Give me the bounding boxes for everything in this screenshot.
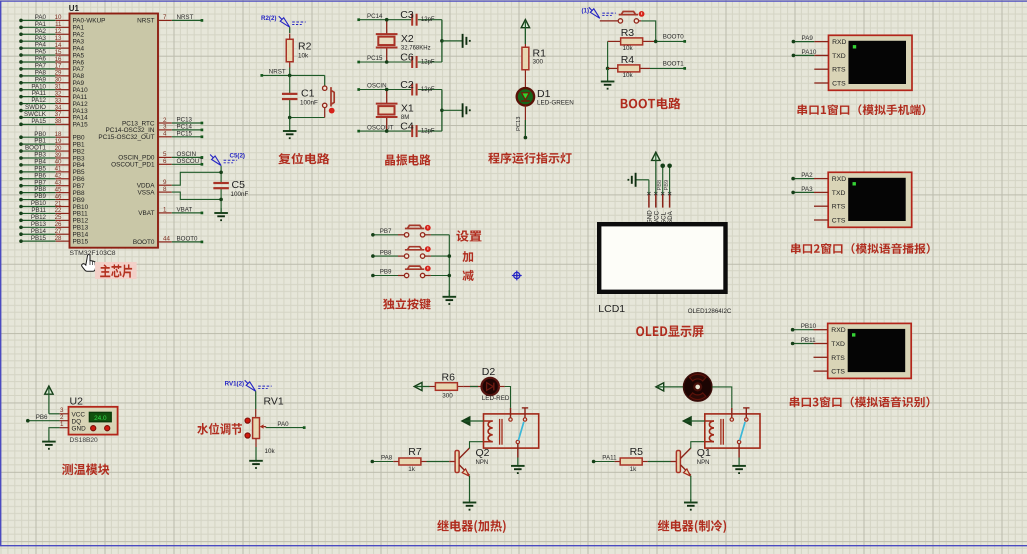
svg-text:BOOT0: BOOT0 [663,34,685,41]
svg-text:NRST: NRST [137,18,154,25]
pin VDDA (9) [137,172,221,189]
wire motor to relay [712,387,732,408]
svg-text:PA2: PA2 [801,172,813,179]
power arrow (relay coil) [462,417,484,425]
svg-text:10k: 10k [298,52,309,59]
svg-text:R3: R3 [621,27,635,39]
svg-text:RV1: RV1 [264,396,284,408]
svg-text:Q1: Q1 [697,447,711,459]
svg-text:PA10: PA10 [802,49,817,56]
ground (Q1 emitter) [684,499,698,511]
pin PB0 (18) [19,131,85,142]
svg-text:OLED12864I2C: OLED12864I2C [688,308,732,315]
svg-text:PA3: PA3 [801,186,813,193]
svg-text:STM32F103C8: STM32F103C8 [70,250,116,257]
crystal X1 group (C2,C4) [357,79,470,137]
label 程序运行指示灯 [488,152,571,164]
label 串口1窗口 [797,104,925,115]
button PB7 [371,225,449,237]
wire NRST [260,69,324,78]
resistor R6 [430,371,464,399]
svg-text:C6: C6 [400,51,414,63]
button PB9 [371,266,449,278]
svg-text:VBAT: VBAT [177,207,193,214]
svg-text:DS18B20: DS18B20 [70,437,99,444]
svg-text:RXD: RXD [832,39,846,46]
pin PB15 (28) [19,235,88,246]
svg-text:PB15: PB15 [73,238,89,245]
svg-text:PA15: PA15 [31,118,46,125]
svg-text:RV1(2): RV1(2) [225,380,245,387]
probe label C5(2) [210,153,245,166]
pin PB4 (40) [19,159,85,170]
wire BOOT0 [654,34,686,44]
svg-text:OSCIN: OSCIN [367,83,387,90]
svg-text:PB8: PB8 [657,180,663,191]
svg-text:PA9: PA9 [802,35,814,42]
pin PA15 (38) [19,118,88,129]
power arrow (relay coil) [683,417,705,425]
cursor icon [82,255,97,272]
svg-text:RTS: RTS [831,355,845,362]
svg-text:TXD: TXD [832,190,846,197]
pin PA10 (31) [19,83,88,94]
svg-text:R1: R1 [533,47,547,59]
pin PC15-OSC32_OUT (4) [98,130,203,141]
capacitor C5 [213,166,248,213]
label 继电器(制冷) [658,520,726,533]
power arrow (OLED VCC) [652,152,660,193]
pin OSCOUT_PD1 (6) [111,158,203,169]
svg-text:RTS: RTS [832,67,846,74]
svg-text:PC15: PC15 [367,55,383,62]
svg-text:PB7: PB7 [380,228,392,235]
pin PA11 (32) [19,90,87,101]
svg-text:R6: R6 [442,371,456,383]
svg-text:BOOT1: BOOT1 [663,61,685,68]
svg-text:44: 44 [163,236,170,243]
U1 chip body [69,4,158,248]
svg-text:LCD1: LCD1 [598,303,625,315]
LED D2 [463,366,510,402]
switch (BOOT) [600,11,656,41]
svg-text:PB9: PB9 [664,180,670,191]
label 串口3窗口 [790,396,930,407]
pin VBAT (1) [138,207,203,218]
wire collector to coil [470,442,484,449]
svg-text:10k: 10k [623,72,634,79]
svg-text:12pF: 12pF [421,60,435,66]
pin PA13 (34) [19,104,88,115]
label 主芯片 [95,262,137,279]
pin PB1 (19) [19,138,85,149]
pin PC13_RTC (2) [122,117,203,128]
svg-text:OSCOUT: OSCOUT [177,158,204,165]
ground (relay contact) [732,458,746,475]
power arrow (D1) [521,20,529,45]
U2 DS18B20 body [60,396,118,444]
label BOOT电路 [621,97,681,109]
svg-text:X2: X2 [401,33,414,45]
label 继电器(加热) [437,520,505,533]
pin PB14 (27) [19,228,88,239]
svg-text:D1: D1 [537,88,551,100]
svg-text:38: 38 [55,118,62,125]
svg-text:PC15-OSC32_OUT: PC15-OSC32_OUT [98,134,154,141]
pin PB11 (22) [19,207,88,218]
svg-text:300: 300 [442,393,453,400]
relay RL1 [484,408,539,458]
wire BOOT1 [650,61,686,70]
terminal 串口2 [791,172,911,227]
probe label R2(2) [261,15,306,27]
pin PB6 (42) [19,172,85,183]
svg-text:6: 6 [163,158,167,165]
resistor R1 [522,27,546,73]
ground (RV1) [249,439,263,469]
pin PA14 (37) [19,111,88,122]
svg-text:C1: C1 [301,88,315,100]
svg-text:12pF: 12pF [421,129,435,135]
svg-text:PA15: PA15 [73,122,89,129]
label 设置 [456,230,481,242]
svg-text:28: 28 [55,235,62,242]
power arrow (U2) [45,386,60,414]
svg-text:U1: U1 [69,4,80,13]
svg-text:24.0: 24.0 [94,415,107,422]
svg-text:VSSA: VSSA [137,189,155,196]
wire PB6 [26,414,60,423]
svg-text:R5: R5 [630,446,644,458]
label 串口2窗口 [791,243,930,254]
wire R3-R4 [606,41,610,70]
wire SDA [664,164,672,194]
wire D1 to PC13 [516,106,527,140]
resistor R4 [608,54,650,79]
svg-text:12pF: 12pF [421,17,435,23]
OLED display LCD1 [598,224,732,315]
svg-text:Q2: Q2 [476,447,490,459]
svg-text:OSCOUT: OSCOUT [367,124,394,131]
pin PA7 (17) [19,63,84,74]
svg-text:300: 300 [533,59,544,66]
svg-text:NRST: NRST [177,14,194,21]
svg-text:CTS: CTS [832,81,846,88]
wire SCL [657,164,665,194]
svg-text:2: 2 [60,414,64,421]
pin PA0-WKUP (10) [19,14,105,25]
svg-text:SDA: SDA [667,210,674,224]
svg-text:PA8: PA8 [381,455,393,462]
transistor Q1 [676,447,711,501]
pin PA8 (29) [19,69,84,80]
svg-text:C5: C5 [232,179,246,191]
svg-text:PC13: PC13 [516,116,522,131]
resistor R7 [371,446,456,473]
OLED pins GND VCC SCL SDA [647,192,675,224]
button PB8 [371,246,449,258]
terminal 串口1 (RXD/TXD/RTS/CTS) [792,35,912,90]
pin PA3 (13) [19,35,84,46]
pin PB13 (26) [19,221,88,232]
svg-text:1: 1 [163,207,167,214]
svg-text:CTS: CTS [831,369,845,376]
transistor Q2 [455,447,490,501]
svg-text:VBAT: VBAT [138,210,154,217]
pin PA1 (11) [19,21,84,32]
probe label RV1(2) [225,380,272,391]
pin PB5 (41) [19,165,85,176]
svg-text:PA0: PA0 [277,421,289,428]
resistor R2 [286,27,311,75]
ground (U2) [42,428,60,450]
power arrow (motor) [656,383,684,391]
pin PA2 (12) [19,28,84,39]
wire C1 bottom [288,116,325,120]
pin PA9 (30) [19,76,84,87]
svg-text:PB8: PB8 [380,249,392,256]
pin PA12 (33) [19,97,88,108]
resistor R3 [608,27,656,52]
ground (Q2 emitter) [463,499,477,511]
resistor R5 [592,446,677,473]
svg-text:TXD: TXD [831,341,845,348]
svg-text:7: 7 [163,14,167,21]
svg-text:PB9: PB9 [380,269,392,276]
svg-text:100nF: 100nF [231,191,249,198]
pin PB3 (39) [19,152,85,163]
svg-text:X1: X1 [401,103,414,115]
button (reset) [323,75,335,117]
label 复位电路 [278,153,329,164]
label 加 [462,251,473,262]
svg-text:C3: C3 [400,9,414,21]
svg-text:PB10: PB10 [801,323,817,330]
pin PB12 (25) [19,214,88,225]
label OLED显示屏 [636,326,703,338]
svg-text:1k: 1k [408,466,416,473]
svg-text:R7: R7 [408,446,422,458]
svg-text:NPN: NPN [697,460,710,466]
ground (buttons) [443,290,457,305]
svg-text:PB6: PB6 [36,414,48,421]
svg-text:R2: R2 [298,41,312,53]
svg-text:C4: C4 [400,120,414,132]
svg-text:PC14: PC14 [367,13,383,20]
pin PA5 (15) [19,49,84,60]
pin PC14-OSC32_IN (3) [105,124,203,135]
svg-text:U2: U2 [70,396,84,408]
terminal 串口3 [791,323,911,378]
wire D2 to relay [499,387,511,408]
ground (relay contact) [511,458,525,475]
pin PA4 (14) [19,42,84,53]
pin NRST (7) [137,14,203,25]
pin PB7 (43) [19,179,85,190]
svg-text:OSCOUT_PD1: OSCOUT_PD1 [111,162,155,169]
svg-text:BOOT0: BOOT0 [133,239,155,246]
svg-text:NPN: NPN [476,460,489,466]
pin BOOT0 (44) [133,236,203,247]
ground (C5) [214,208,228,221]
svg-text:100nF: 100nF [300,99,318,106]
svg-text:PB15: PB15 [31,235,47,242]
pin PB8 (45) [19,186,85,197]
pin OSCIN_PD0 (5) [118,151,203,162]
probe label (1) [582,7,616,18]
wire collector to coil [691,442,705,449]
svg-text:R2(2): R2(2) [261,15,276,22]
svg-text:GND: GND [72,425,87,432]
svg-text:(1): (1) [582,8,590,15]
svg-text:C2: C2 [400,79,414,91]
svg-text:R4: R4 [621,54,635,66]
ground (reset) [283,118,297,140]
svg-text:PA11: PA11 [602,455,617,462]
svg-text:CTS: CTS [832,218,846,225]
relay RL2 [705,408,760,458]
svg-text:PB11: PB11 [801,337,816,344]
label 晶振电路 [385,154,431,166]
svg-text:PC15: PC15 [177,130,193,137]
svg-text:BOOT0: BOOT0 [177,236,199,243]
pin PB9 (46) [19,193,85,204]
wire button bus [448,235,452,296]
label 测温模块 [62,463,109,475]
pin PB2 (20) [19,145,85,156]
power arrow (R6) [414,382,429,390]
svg-text:10k: 10k [265,448,276,455]
svg-text:1k: 1k [630,466,638,473]
ground (BOOT) [601,68,615,89]
label 减 [462,270,473,281]
capacitor C1 [282,75,318,117]
label 水位调节 [197,423,242,435]
svg-text:D2: D2 [482,366,496,378]
origin marker [512,271,522,281]
svg-text:8: 8 [163,186,167,193]
svg-text:1: 1 [60,421,64,428]
svg-text:C5(2): C5(2) [230,153,245,160]
pin VSSA (8) [137,186,221,200]
svg-text:LED-RED: LED-RED [482,395,510,402]
crystal X2 group (C3,C6) [357,9,470,68]
svg-text:RXD: RXD [832,176,846,183]
svg-text:12pF: 12pF [421,87,435,93]
svg-text:LED-GREEN: LED-GREEN [537,100,574,107]
label 独立按键 [383,298,431,309]
pin PA6 (16) [19,56,84,67]
wire PA0 [266,421,306,429]
svg-text:4: 4 [163,131,167,138]
potentiometer RV1 [245,391,284,455]
svg-text:TXD: TXD [832,53,846,60]
svg-text:RTS: RTS [832,204,846,211]
LED D1 [517,73,574,107]
svg-text:10k: 10k [623,45,634,52]
motor [684,373,712,401]
pin PB10 (21) [19,200,88,211]
ground (OLED) [628,173,649,194]
STM32F103C8 value label [70,250,116,257]
svg-text:NRST: NRST [269,69,286,76]
svg-text:RXD: RXD [831,327,845,334]
